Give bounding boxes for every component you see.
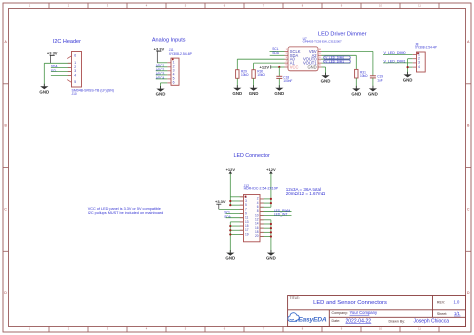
wire gnd pin4 [408, 66, 413, 68]
svg-text:GND: GND [274, 91, 284, 96]
connector J12 HDR-IDC-2.54-2X10P [240, 195, 264, 242]
junction [270, 227, 272, 229]
svg-text:5: 5 [74, 80, 76, 84]
svg-text:+12V: +12V [266, 167, 276, 172]
svg-text:GND: GND [39, 89, 49, 94]
svg-text:GND: GND [156, 92, 166, 97]
wire +12V left rail [229, 174, 231, 206]
wire pin6 row [161, 82, 168, 84]
power flag +3.3V (I2C) [47, 50, 58, 55]
wire SCL [270, 50, 285, 52]
wire A2 to R31 [322, 54, 357, 56]
svg-text:4: 4 [74, 73, 76, 77]
ground [39, 84, 49, 95]
ground [351, 86, 361, 97]
wire +12V right rail [270, 174, 272, 208]
node V_LED_DIM0 (boxed) [324, 55, 350, 59]
op-amp U7 GP8403 DAC [285, 47, 322, 71]
ground [225, 250, 235, 261]
wire [156, 78, 168, 80]
wire [230, 200, 243, 202]
svg-text:ADC4: ADC4 [156, 76, 165, 80]
ground [274, 85, 284, 96]
wire [230, 225, 243, 227]
wire [230, 233, 243, 235]
wire gnd vertical [43, 63, 45, 86]
svg-text:19: 19 [245, 232, 249, 236]
svg-text:Joseph Chiocca: Joseph Chiocca [414, 319, 450, 325]
wire pin1 row [157, 62, 167, 64]
svg-text:REV:: REV: [437, 300, 445, 304]
ground [232, 85, 242, 96]
wire DIM0 [383, 54, 413, 56]
svg-text:GND: GND [225, 256, 235, 261]
svg-text:Sheet:: Sheet: [437, 312, 447, 316]
wire [260, 227, 271, 229]
svg-text:GP8403-TC59 EW_C3152007: GP8403-TC59 EW_C3152007 [303, 39, 342, 43]
svg-text:100nF: 100nF [283, 79, 292, 83]
svg-text:Date:: Date: [332, 319, 341, 323]
node V_LED_DIM1 (boxed) [324, 59, 350, 63]
wire pin4 row [51, 75, 72, 77]
wire A0 row [237, 58, 284, 60]
wire U7 GND [322, 66, 326, 68]
svg-text:GND: GND [403, 77, 413, 82]
power flag +12V (LED conn left) [226, 167, 236, 174]
wire A1 row [254, 62, 285, 64]
svg-text:+3.3V: +3.3V [215, 199, 226, 204]
ground [249, 85, 259, 96]
svg-text:1.0: 1.0 [454, 300, 460, 305]
wire SDA [51, 66, 72, 68]
junction [229, 233, 231, 235]
wire LED_PWM [260, 210, 292, 212]
svg-text:+12V: +12V [260, 64, 270, 69]
capacitor C19 [370, 75, 383, 89]
svg-text:XY308-2.54-4P: XY308-2.54-4P [415, 46, 437, 50]
junction [270, 235, 272, 237]
wire pin1 row [44, 62, 71, 64]
ground [368, 86, 378, 97]
wire +3.3V stem [49, 55, 51, 63]
power flag +12V (LED conn right) [266, 167, 276, 174]
svg-text:10kΩ: 10kΩ [360, 74, 368, 78]
wire VOUT0 [322, 58, 351, 60]
svg-text:GND: GND [321, 78, 331, 83]
junction [270, 198, 272, 200]
svg-text:6: 6 [74, 53, 76, 57]
svg-text:+3.3V: +3.3V [154, 46, 165, 51]
svg-text:10kΩ: 10kΩ [241, 73, 249, 77]
svg-text:V_LED_DIM1: V_LED_DIM1 [325, 59, 344, 63]
svg-text:XY308-2.54-6P: XY308-2.54-6P [169, 52, 193, 56]
svg-text:GND: GND [266, 256, 276, 261]
wire [230, 221, 243, 223]
junction [270, 231, 272, 233]
svg-text:6: 6 [173, 81, 175, 85]
junction [229, 225, 231, 227]
svg-text:LED Connector: LED Connector [234, 153, 270, 159]
resistor R30 [252, 63, 266, 88]
ground [321, 73, 331, 84]
svg-text:Company:: Company: [332, 311, 348, 315]
svg-text:VCC: VCC [290, 64, 299, 69]
svg-text:1/1: 1/1 [454, 311, 460, 316]
wire [230, 204, 243, 206]
wire [230, 196, 243, 198]
wire [260, 219, 271, 221]
connector J10 SM04B-SRSS-TB [67, 52, 81, 88]
svg-text:20: 20 [255, 234, 259, 238]
svg-text:I2C pullups MUST be included o: I2C pullups MUST be included on mainboar… [88, 211, 164, 215]
junction [229, 200, 231, 202]
svg-text:20mΩ/12 = 1.67mΩ: 20mΩ/12 = 1.67mΩ [286, 191, 326, 196]
wire LED_INT [260, 215, 292, 217]
EasyEDA logo [288, 313, 327, 324]
resistor R31 [355, 69, 369, 88]
svg-text:+3.3V: +3.3V [47, 50, 58, 55]
svg-text:SDA: SDA [224, 215, 231, 219]
wire [156, 66, 168, 68]
wire [260, 236, 271, 238]
svg-text:Your Company: Your Company [350, 310, 378, 315]
svg-text:1uF: 1uF [377, 78, 383, 82]
wire SCL [51, 71, 72, 73]
svg-text:+12V: +12V [226, 167, 236, 172]
wire VCC row [271, 66, 285, 68]
wire +3.3V stem [156, 51, 158, 63]
svg-text:SM04B-SRSS-TB (LF)(SN): SM04B-SRSS-TB (LF)(SN) [72, 88, 114, 92]
wire gnd pin2 [408, 58, 413, 60]
svg-text:GND: GND [351, 91, 361, 96]
wire [260, 198, 271, 200]
svg-text:GND: GND [307, 64, 316, 69]
svg-text:J10: J10 [72, 92, 77, 96]
junction [229, 229, 231, 231]
svg-text:Analog Inputs: Analog Inputs [152, 38, 186, 44]
wire gnd stem [160, 83, 162, 89]
junction [270, 223, 272, 225]
svg-text:LED and Sensor Connectors: LED and Sensor Connectors [313, 300, 387, 306]
svg-text:I2C Header: I2C Header [53, 39, 81, 45]
wire [260, 206, 271, 208]
wire [260, 231, 271, 233]
capacitor C18 [276, 67, 292, 88]
wire [230, 229, 243, 231]
wire [156, 74, 168, 76]
wire pin9 [226, 213, 244, 215]
ground [266, 250, 276, 261]
svg-text:GND: GND [368, 91, 378, 96]
wire SDA [270, 54, 285, 56]
wire [260, 202, 271, 204]
power flag +3.3V (analog) [154, 46, 165, 51]
junction [407, 66, 409, 68]
svg-text:10kΩ: 10kΩ [257, 73, 265, 77]
svg-text:EasyEDA: EasyEDA [298, 316, 327, 323]
svg-text:Drawn By:: Drawn By: [389, 319, 406, 323]
wire VOUT1 [322, 62, 351, 64]
wire gnd rail [407, 59, 409, 75]
svg-text:HDR-IDC-2.54-2X10P: HDR-IDC-2.54-2X10P [244, 187, 279, 191]
resistor R29 [236, 59, 250, 88]
wire pin11 [226, 217, 244, 219]
wire left gnd rail [229, 222, 231, 253]
wire [260, 223, 271, 225]
wire [156, 70, 168, 72]
title block [288, 296, 466, 327]
svg-text:LED Driver Dimmer: LED Driver Dimmer [318, 31, 367, 37]
ground [403, 72, 413, 83]
svg-text:TITLE:: TITLE: [290, 296, 300, 300]
junction [278, 66, 280, 68]
connector J8 XY308-2.54-4P [413, 52, 426, 72]
ground [156, 86, 166, 97]
wire pin7 [219, 208, 244, 210]
svg-text:GND: GND [249, 91, 259, 96]
svg-text:SCL: SCL [51, 69, 57, 73]
junction [270, 202, 272, 204]
junction [229, 204, 231, 206]
svg-text:SDA: SDA [272, 51, 279, 55]
svg-text:GND: GND [232, 91, 242, 96]
svg-text:4: 4 [418, 65, 420, 69]
connector J11 XY308-2.54-6P [167, 58, 179, 85]
svg-text:LED_INT: LED_INT [274, 212, 288, 216]
wire right gnd rail [270, 220, 272, 253]
wire DIM1 [383, 62, 413, 64]
wire V5V to C19 [322, 50, 373, 52]
